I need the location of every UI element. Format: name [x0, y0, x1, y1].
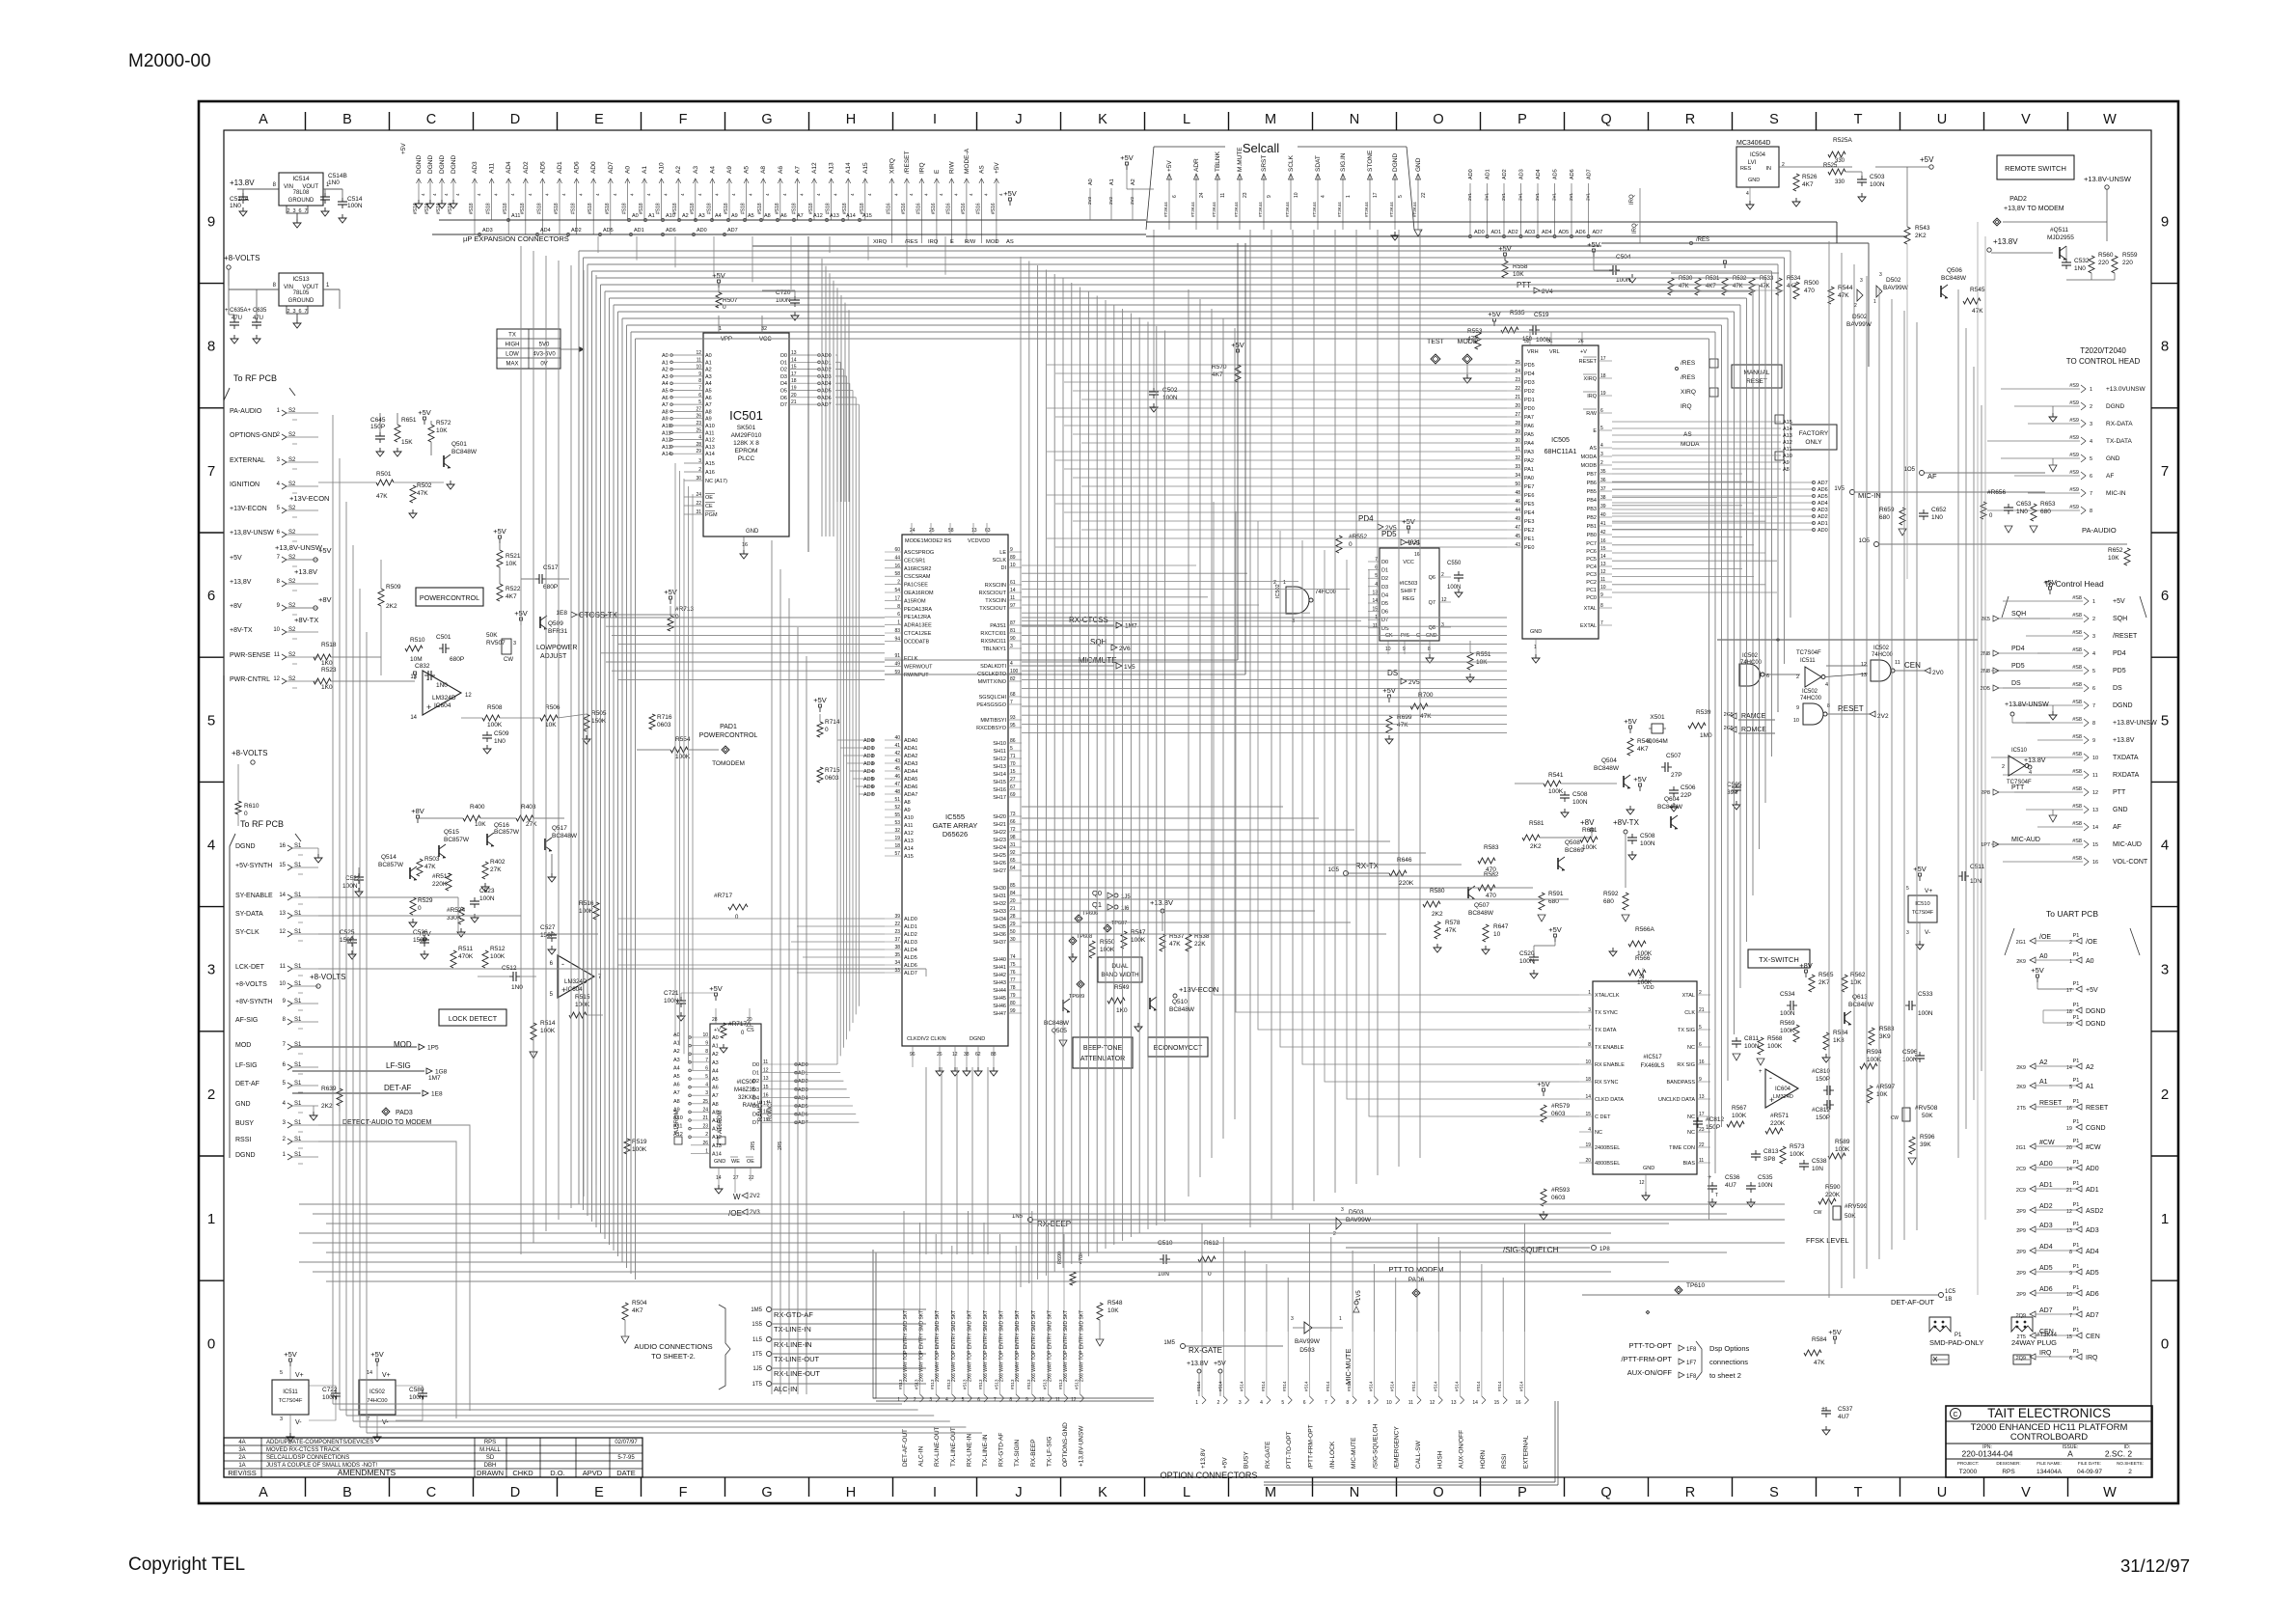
wire corridor mid horizontal left [606, 625, 885, 627]
svg-text:71: 71 [1010, 754, 1016, 759]
svg-text:NC: NC [1595, 1130, 1602, 1136]
svg-text:ALD2: ALD2 [904, 932, 917, 938]
wire IC505 PB/PC pin route [1612, 528, 1777, 530]
svg-text:ALD1: ALD1 [904, 924, 917, 930]
wire IC505 PB/PC pin route [1612, 567, 1742, 569]
svg-text:15: 15 [1600, 546, 1606, 552]
svg-text:+5V: +5V [1537, 1080, 1550, 1088]
wire corridor vertical right [1878, 288, 1880, 1259]
svg-text:AD7: AD7 [727, 228, 738, 234]
svg-text:A10: A10 [1783, 454, 1792, 459]
svg-text:A15ROM: A15ROM [674, 1110, 680, 1134]
wire AD0 bus vertical [836, 355, 838, 1064]
DUAL BAND WIDTH box [1098, 957, 1142, 982]
option pin S14-9 [1373, 1332, 1375, 1396]
svg-text:#S18: #S18 [605, 203, 611, 214]
svg-text:17: 17 [791, 371, 797, 377]
svg-text:19: 19 [2066, 1126, 2072, 1132]
svg-text:2X6 WAY TOP ENTRY SMD SKT: 2X6 WAY TOP ENTRY SMD SKT [1015, 1310, 1021, 1382]
svg-text:R544: R544 [1838, 285, 1853, 291]
svg-text:AD6: AD6 [2086, 1291, 2099, 1298]
svg-text:AD0: AD0 [697, 228, 707, 234]
svg-text:45: 45 [894, 766, 900, 772]
svg-text:DGND: DGND [427, 155, 434, 174]
wire FX469 left pin route [1280, 531, 1579, 1047]
svg-text:94: 94 [894, 636, 900, 642]
svg-text:2.SC. 2: 2.SC. 2 [2105, 1449, 2133, 1459]
svg-text:14: 14 [410, 715, 417, 721]
svg-text:NC: NC [1687, 1114, 1695, 1120]
svg-text:D1: D1 [1381, 568, 1388, 574]
svg-text:OPTION CONNECTORS: OPTION CONNECTORS [1161, 1471, 1258, 1480]
svg-text:EXTAL: EXTAL [1580, 623, 1597, 629]
svg-text:23: 23 [1515, 377, 1520, 383]
svg-text:51: 51 [894, 797, 900, 803]
IC501 pin A2 [672, 369, 703, 371]
svg-text:GND: GND [714, 1159, 725, 1165]
svg-text:Q515: Q515 [444, 829, 459, 836]
wire bus loop right vertical [1721, 325, 1723, 1127]
svg-text:MIC/MUTE: MIC/MUTE [1079, 656, 1117, 665]
grid tick bottom [2067, 1477, 2069, 1497]
svg-text:1P5: 1P5 [427, 1045, 439, 1052]
IC517 pin UNCLKD DATA [1697, 1098, 1710, 1100]
svg-text:PD4: PD4 [2113, 650, 2126, 657]
IC555 pin MMTTXINO [1008, 680, 1022, 682]
svg-text:-: - [426, 674, 429, 684]
svg-text:12: 12 [465, 693, 472, 699]
svg-text:#CW: #CW [2086, 1144, 2101, 1151]
svg-text:0: 0 [2161, 1335, 2169, 1352]
svg-text:N: N [1350, 1485, 1359, 1500]
svg-text:28: 28 [1010, 914, 1016, 920]
wire corridor right horizontal [1022, 898, 1569, 900]
svg-text:GND: GND [1748, 178, 1760, 183]
svg-text:2: 2 [2090, 404, 2092, 410]
wire IC555 bottom vertical [971, 1067, 973, 1254]
svg-text:R531: R531 [1706, 276, 1720, 282]
svg-text:A8: A8 [1783, 467, 1790, 473]
svg-text:1N0: 1N0 [494, 738, 506, 745]
svg-text:DGND: DGND [2086, 1021, 2106, 1028]
IC503 pin D7 [1368, 619, 1380, 620]
svg-text:5: 5 [705, 1074, 708, 1080]
wire option bank2 vertical up [1524, 1224, 1526, 1332]
svg-text:35: 35 [894, 952, 900, 958]
wire SY-DATA extension [318, 915, 521, 917]
wire corridor vertical selcall [1292, 230, 1294, 1210]
svg-text:R573: R573 [1790, 1143, 1805, 1150]
svg-text:27: 27 [733, 1175, 739, 1181]
IC503 pin Q7 [1439, 601, 1451, 603]
svg-text:T: T [1715, 1193, 1718, 1198]
IC555 pin SH12 [1008, 757, 1022, 759]
svg-text:LOCK DETECT: LOCK DETECT [449, 1014, 498, 1023]
svg-text:UNCLKD DATA: UNCLKD DATA [1658, 1097, 1695, 1103]
svg-text:4K7: 4K7 [632, 1307, 643, 1314]
svg-text:A6: A6 [662, 396, 669, 401]
svg-text:2G1: 2G1 [2016, 1145, 2026, 1151]
svg-text:A2: A2 [673, 1049, 680, 1055]
wire bus loop right vertical [1708, 339, 1710, 1220]
svg-text:27: 27 [1010, 777, 1016, 783]
svg-text:2V1: 2V1 [1467, 192, 1472, 201]
svg-text:#S8: #S8 [2072, 665, 2082, 671]
POWERCONTROL box [416, 588, 483, 606]
IC555 pin SH43 [1008, 981, 1022, 983]
IC555 pin SH25 [1008, 854, 1022, 856]
svg-text:1: 1 [1588, 990, 1591, 996]
svg-text:49: 49 [1515, 516, 1520, 522]
svg-text:SHIFT: SHIFT [1401, 589, 1417, 594]
wire bus loop right vertical [1790, 251, 1791, 618]
IC505 pin XTAL [1599, 607, 1612, 609]
svg-text:100N: 100N [1870, 181, 1885, 188]
svg-text:28: 28 [696, 442, 701, 448]
wire XIRQ row [752, 245, 1601, 247]
svg-text:ALD0: ALD0 [904, 917, 917, 922]
svg-text:SH34: SH34 [993, 917, 1006, 922]
AD6 selcall-side stub [1571, 183, 1572, 234]
wire upper-left horizontal [352, 533, 583, 535]
wire option bank2 vertical up [1502, 1278, 1504, 1332]
svg-text:PE2: PE2 [1524, 528, 1534, 534]
IC555 pin SH11 [1008, 750, 1022, 752]
IC517 pin BANDPASS [1697, 1081, 1710, 1083]
wire corridor left bottom turn [353, 1420, 950, 1422]
svg-text:TX SYNC: TX SYNC [1595, 1010, 1618, 1016]
copyright symbol [1951, 1409, 1961, 1419]
svg-text:PEOA13RA: PEOA13RA [904, 607, 932, 613]
svg-text:18: 18 [894, 843, 900, 849]
svg-text:IC511: IC511 [1800, 658, 1816, 664]
wire RSSI extension [318, 1142, 456, 1418]
svg-text:A2: A2 [2039, 1059, 2048, 1066]
svg-text:100K: 100K [1732, 1113, 1747, 1119]
svg-text:#R571: #R571 [1770, 1113, 1790, 1119]
svg-text:R508: R508 [487, 704, 503, 711]
wire Q501 collector [430, 442, 432, 455]
svg-text:SK501: SK501 [737, 425, 756, 431]
AD7 selcall-side stub [1588, 183, 1590, 234]
wire IC501 O3 horizontal [835, 375, 847, 377]
svg-text:PB1: PB1 [1587, 524, 1597, 530]
svg-text:IC511: IC511 [283, 1389, 298, 1395]
svg-text:5: 5 [1398, 195, 1404, 198]
svg-text:220K: 220K [432, 881, 448, 888]
svg-text:M.MUTE: M.MUTE [1237, 147, 1244, 172]
expansion connector pin A6 [779, 179, 781, 220]
IC505 pin PA6 [1507, 425, 1522, 426]
wire SY-ENABLE extension [318, 896, 458, 898]
svg-text:48: 48 [894, 789, 900, 795]
svg-text:AUDIO CONNECTIONS: AUDIO CONNECTIONS [634, 1342, 712, 1351]
svg-text:RX-BEEP: RX-BEEP [1037, 1220, 1071, 1228]
svg-text:GROUND: GROUND [288, 298, 314, 304]
svg-text:1E8: 1E8 [431, 1091, 443, 1098]
svg-text:R514: R514 [540, 1020, 556, 1027]
svg-text:57: 57 [894, 851, 900, 857]
wire bus loop top horizontal [610, 297, 1747, 299]
wire bus loop top horizontal [584, 257, 1785, 259]
svg-text:24: 24 [910, 528, 916, 534]
wire bus loop top horizontal [596, 277, 1765, 279]
FACTORY ONLY box [1790, 425, 1837, 450]
svg-text:MC34064D: MC34064D [1736, 140, 1770, 147]
wire corridor vertical left [332, 415, 334, 1404]
svg-text:4K7: 4K7 [1787, 284, 1797, 289]
svg-text:MMTTXINO: MMTTXINO [978, 679, 1007, 685]
wire DS row [1407, 681, 1993, 688]
svg-text:68HC11A1: 68HC11A1 [1544, 449, 1577, 455]
selcall DGND ground [1394, 232, 1396, 235]
wire IC505 left pin wire [1047, 364, 1507, 366]
PAD2 diamond [1993, 218, 2001, 226]
svg-text:R559: R559 [2122, 252, 2138, 259]
REMOTE SWITCH box [1997, 155, 2074, 179]
svg-text:+13.0VUNSW: +13.0VUNSW [2106, 386, 2146, 393]
svg-text:#S9: #S9 [2069, 418, 2079, 424]
wire corridor mid horizontal right [1022, 634, 1507, 636]
svg-text:150K: 150K [591, 718, 607, 725]
grid tick left [199, 1279, 224, 1281]
svg-text:1: 1 [897, 620, 900, 626]
svg-text:27P: 27P [1671, 772, 1682, 779]
svg-text:PA3: PA3 [1524, 450, 1534, 455]
svg-text:XTAL/CLK: XTAL/CLK [1595, 993, 1620, 999]
svg-text:A11: A11 [673, 1124, 682, 1130]
IC501 output pin O4 [789, 382, 818, 384]
svg-text:ADA1: ADA1 [904, 746, 917, 752]
svg-text:14: 14 [279, 893, 286, 898]
svg-text:1M0: 1M0 [1700, 732, 1712, 739]
svg-text:PA-AUDIO: PA-AUDIO [230, 408, 262, 415]
IC501 output pin O3 [789, 375, 818, 377]
svg-text:R526: R526 [1802, 174, 1818, 180]
option pin S13-1 [903, 1254, 905, 1394]
svg-text:A11: A11 [712, 1127, 721, 1133]
wire corridor vertical mid [1156, 326, 1158, 1225]
svg-text:#C812: #C812 [1812, 1107, 1831, 1114]
svg-text:#S8: #S8 [2072, 647, 2082, 653]
wire expansion down vertical [597, 236, 599, 253]
svg-text:#S18: #S18 [469, 203, 475, 214]
svg-text:100N: 100N [1536, 337, 1551, 344]
svg-text:A11: A11 [904, 823, 913, 829]
svg-text:ASCSPROG: ASCSPROG [904, 550, 934, 556]
amendments row line [224, 1444, 642, 1446]
svg-text:PD1: PD1 [1524, 398, 1535, 403]
svg-text:48: 48 [1515, 490, 1520, 496]
svg-text:1: 1 [2090, 387, 2092, 393]
svg-text:IC502: IC502 [1802, 689, 1818, 695]
svg-text:LE: LE [999, 550, 1006, 556]
svg-text:31: 31 [1010, 842, 1016, 848]
svg-text:AD7: AD7 [1587, 169, 1593, 179]
svg-text:/RESET: /RESET [2113, 633, 2138, 640]
svg-text:REV/ISS: REV/ISS [228, 1469, 257, 1477]
svg-text:PGM: PGM [705, 512, 718, 518]
wire corridor bottom horizontal [299, 1203, 1785, 1205]
svg-text:FFSK LEVEL: FFSK LEVEL [1806, 1236, 1849, 1245]
svg-text:3: 3 [1239, 1400, 1242, 1406]
svg-text:AD3: AD3 [1519, 169, 1525, 179]
wire ALD bus horizontal [797, 972, 885, 974]
svg-text:#R593: #R593 [1551, 1187, 1571, 1194]
svg-text:+13,8V-UNSW: +13,8V-UNSW [230, 530, 274, 536]
expansion connector pin A1 [643, 179, 645, 220]
svg-text:R: R [1685, 112, 1695, 127]
svg-text:#S16: #S16 [991, 203, 997, 214]
svg-text:EXTERNAL: EXTERNAL [230, 457, 265, 464]
svg-text:3: 3 [2090, 422, 2092, 427]
svg-text:100N: 100N [1519, 958, 1535, 965]
svg-text:13: 13 [1699, 1094, 1705, 1100]
svg-text:GND: GND [1643, 1166, 1654, 1171]
svg-text:C537: C537 [1838, 1406, 1853, 1413]
svg-text:#Q511: #Q511 [2050, 227, 2068, 234]
wire AD1 to control head [1612, 522, 1814, 524]
IC555 pin ALD6 [885, 964, 902, 966]
option pin S14-6 [1309, 1332, 1311, 1396]
svg-text:2X6 WAY TOP ENTRY SMD SKT: 2X6 WAY TOP ENTRY SMD SKT [903, 1310, 909, 1382]
svg-text:+5V: +5V [230, 555, 242, 562]
svg-text:R549: R549 [1114, 984, 1130, 991]
svg-text:S: S [1769, 1485, 1779, 1500]
svg-text:11: 11 [1408, 1400, 1413, 1406]
svg-text:AS: AS [1590, 446, 1598, 452]
svg-text:R: R [1685, 1485, 1695, 1500]
expansion connector pin AD2 [525, 179, 527, 234]
svg-text:IC555: IC555 [945, 812, 965, 821]
svg-text:/PTT-FRM-OPT: /PTT-FRM-OPT [1308, 1424, 1315, 1469]
svg-text:A4: A4 [715, 213, 722, 219]
IC501 output pin O7 [789, 403, 818, 405]
svg-text:+5V: +5V [1587, 240, 1600, 249]
svg-text:MODB: MODB [1581, 463, 1598, 469]
MANUAL RESET box [1732, 365, 1782, 388]
IC555 pin TXSCIIN [1008, 599, 1022, 601]
grid tick bottom [892, 1477, 894, 1497]
svg-text:P: P [1517, 1485, 1527, 1500]
wire corridor mid horizontal right [1022, 625, 1507, 627]
wire corridor vertical right [1903, 311, 1905, 1240]
svg-text:IC504: IC504 [1750, 152, 1766, 158]
svg-text:+5V: +5V [418, 408, 431, 417]
svg-text:POWERCONTROL: POWERCONTROL [699, 732, 758, 739]
svg-text:2X6 WAY TOP ENTRY SMD SKT: 2X6 WAY TOP ENTRY SMD SKT [983, 1310, 989, 1382]
svg-text:A1: A1 [2086, 1084, 2094, 1090]
svg-text:DGND: DGND [235, 1152, 256, 1159]
svg-text:C527: C527 [540, 924, 556, 931]
svg-text:150: 150 [1522, 337, 1533, 343]
svg-text:A1: A1 [673, 1041, 680, 1047]
wire corridor IC555 right upper horizontal [1022, 572, 1247, 574]
svg-text:To RF PCB: To RF PCB [240, 819, 284, 829]
wire IC505 PB/PC pin route [1612, 488, 1765, 490]
IC501 pin A5 [672, 390, 703, 392]
wire vertical 2050 [1977, 222, 1979, 1295]
option pin S13-7 [999, 1254, 1001, 1394]
svg-text:2V5: 2V5 [1408, 679, 1420, 686]
svg-text:10: 10 [273, 627, 280, 633]
svg-text:8: 8 [2161, 339, 2169, 355]
svg-text:AD4: AD4 [1542, 230, 1552, 235]
svg-text:7: 7 [705, 1058, 708, 1063]
svg-text:47K: 47K [417, 490, 428, 497]
svg-text:AD5: AD5 [539, 161, 546, 174]
svg-text:16: 16 [279, 843, 286, 849]
svg-text:680: 680 [1879, 514, 1890, 521]
svg-text:24: 24 [1199, 192, 1205, 198]
svg-text:#S18: #S18 [571, 203, 577, 214]
wire A-bus vertical to RAM [674, 463, 676, 1037]
svg-text:26: 26 [702, 1141, 708, 1146]
svg-text:11: 11 [1699, 1158, 1704, 1164]
svg-text:4: 4 [1321, 195, 1326, 198]
svg-text:P: P [1517, 112, 1527, 127]
svg-text:P1: P1 [2073, 1222, 2080, 1227]
svg-text:P1: P1 [2073, 981, 2080, 987]
svg-text:#S8: #S8 [2072, 769, 2082, 775]
svg-text:L: L [1183, 1485, 1190, 1500]
wire inner nest vertical [829, 273, 831, 536]
svg-text:100N: 100N [322, 1394, 338, 1401]
svg-text:#S14: #S14 [1476, 1381, 1481, 1391]
svg-text:9: 9 [2092, 738, 2095, 744]
svg-text:17: 17 [763, 1101, 769, 1107]
svg-text:BC848W: BC848W [1169, 1006, 1195, 1013]
UART bracket right [2130, 928, 2140, 955]
svg-text:BAV99W: BAV99W [1883, 285, 1909, 291]
IC505 pin PE7 [1507, 485, 1522, 487]
svg-text:SH41: SH41 [993, 965, 1006, 971]
svg-text:AD0: AD0 [1474, 230, 1485, 235]
grid tick bottom [473, 1477, 475, 1497]
grid tick top [808, 112, 810, 130]
svg-text:T: T [1854, 1485, 1863, 1500]
svg-text:2: 2 [2161, 1087, 2169, 1103]
svg-text:29: 29 [1010, 922, 1016, 927]
svg-text:RXSNCI11: RXSNCI11 [981, 639, 1007, 645]
svg-text:IGNITION: IGNITION [230, 481, 260, 488]
svg-text:AD0: AD0 [590, 161, 597, 174]
grid tick bottom [1564, 1477, 1566, 1497]
svg-text:A13: A13 [712, 1143, 722, 1149]
svg-text:FACTORY: FACTORY [1799, 430, 1829, 437]
svg-text:12: 12 [1600, 569, 1606, 575]
svg-text:12: 12 [2092, 790, 2098, 796]
svg-text:NC: NC [1687, 1130, 1695, 1136]
svg-text:AD0: AD0 [1818, 528, 1828, 534]
svg-text:1V5: 1V5 [1356, 1290, 1362, 1301]
IC503 pin D6 [1368, 611, 1380, 613]
svg-text:A11: A11 [1783, 447, 1791, 453]
svg-text:IRQ: IRQ [928, 239, 939, 245]
IC555 pin SH46 [1008, 1004, 1022, 1006]
IC517 pin C DET [1579, 1115, 1593, 1117]
wire corridor vertical right [1891, 299, 1893, 1250]
svg-text:C512: C512 [502, 965, 517, 972]
svg-text:#S8: #S8 [2072, 613, 2082, 619]
svg-text:+: + [1708, 1174, 1711, 1181]
wire corridor vertical under IC501 [779, 569, 781, 1394]
grid tick top [892, 112, 894, 130]
wire ALD bus horizontal [797, 925, 885, 927]
svg-text:MOD: MOD [394, 1040, 412, 1049]
svg-text:+5V: +5V [1633, 775, 1647, 784]
IC505 pin XIRQ [1599, 377, 1612, 379]
